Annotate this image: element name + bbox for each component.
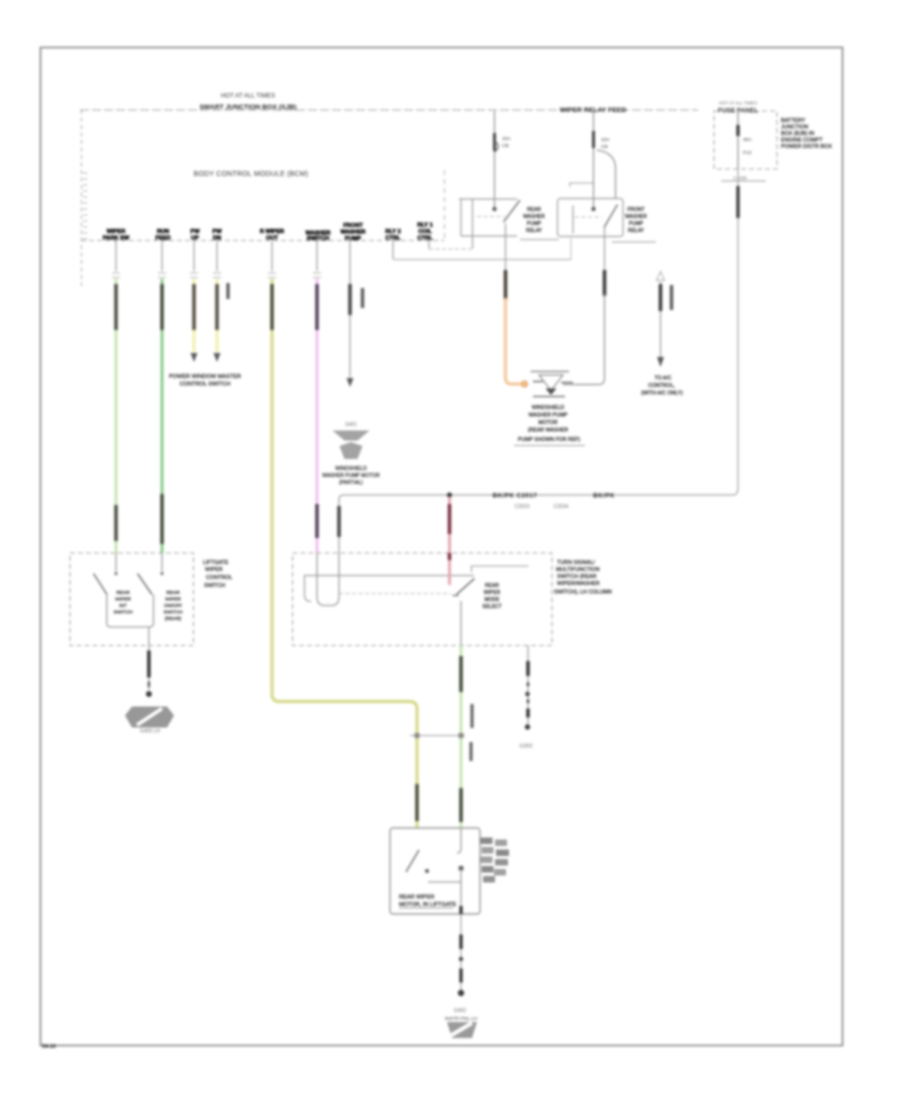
ground G1 left	[125, 707, 174, 735]
node: U3 internal label 1	[114, 590, 133, 616]
wire W3 yellow from pin3	[190, 241, 198, 362]
wire: relay K1 output orange to washer pump	[506, 224, 528, 388]
wire: fuse output down	[737, 169, 739, 491]
fuse box F1 top right	[714, 101, 832, 492]
svg-text:PW: PW	[212, 229, 222, 235]
svg-text:54-10: 54-10	[42, 1044, 56, 1050]
relay K2 front washer relay	[558, 111, 657, 242]
svg-text:WASHER: WASHER	[625, 214, 647, 220]
relay K1 label	[523, 207, 545, 234]
wire W9 gray relay1 coil control	[429, 241, 473, 249]
svg-text:INT: INT	[119, 603, 127, 609]
wire: green lead inside motor box	[457, 828, 461, 853]
relay K2 coil	[572, 206, 574, 234]
svg-text:10A: 10A	[601, 137, 610, 143]
wire W6 pink wash switch	[313, 241, 321, 553]
module U3 master window switch dashed box	[70, 553, 194, 646]
pin 7 label	[341, 223, 366, 242]
relay K1 rear washer relay	[459, 111, 559, 249]
node: U3 internal label 2	[164, 590, 183, 622]
svg-text:WIPER: WIPER	[165, 597, 181, 603]
wire: relay K2 output gray to washer pump	[563, 228, 605, 385]
svg-text:UP: UP	[191, 236, 199, 242]
svg-text:RLY 1: RLY 1	[417, 223, 433, 229]
relay K2 box	[558, 199, 624, 237]
connector C1 below fuse box	[721, 180, 766, 182]
svg-text:R WIPER: R WIPER	[260, 229, 284, 235]
svg-text:S401: S401	[345, 422, 357, 428]
wire: internal off position line	[472, 566, 529, 572]
circuit breaker CB2	[592, 131, 595, 148]
switch SW2 arm	[94, 553, 118, 595]
svg-text:WASHER: WASHER	[523, 214, 545, 220]
svg-text:HOT AT ALL TIMES: HOT AT ALL TIMES	[221, 93, 275, 100]
svg-text:HOT AT ALL TIMES: HOT AT ALL TIMES	[719, 101, 758, 106]
wire: relay K2 feed	[593, 111, 595, 208]
svg-text:SWITCH: SWITCH	[307, 236, 329, 242]
svg-text:C2023: C2023	[515, 504, 530, 510]
wire: U3 internal common bus	[107, 595, 154, 646]
module U1 BODY CONTROL MODULE dashed box	[81, 110, 445, 286]
svg-text:WIPER: WIPER	[115, 597, 131, 603]
switch SW3 arm	[138, 553, 164, 595]
svg-text:REAR: REAR	[116, 590, 130, 596]
wire: U2 feed drop from junction line	[338, 499, 340, 553]
svg-text:SWITCH: SWITCH	[164, 610, 183, 616]
svg-text:C2034: C2034	[554, 504, 569, 510]
wire: fuse feed	[737, 111, 739, 126]
relay K1 switch arm	[504, 200, 521, 222]
svg-text:FRONT: FRONT	[627, 207, 644, 213]
svg-text:WIPER: WIPER	[107, 229, 126, 235]
svg-text:WASHER PUMP MOTOR: WASHER PUMP MOTOR	[322, 473, 380, 479]
svg-text:(WITH A/C ONLY): (WITH A/C ONLY)	[641, 391, 683, 397]
svg-text:F13: F13	[743, 150, 752, 156]
wire: motor ground dashed black	[458, 914, 464, 996]
svg-text:(REAR WASHER: (REAR WASHER	[528, 428, 568, 434]
svg-text:CONTROL: CONTROL	[206, 575, 232, 581]
svg-text:BOX (BJB) IN: BOX (BJB) IN	[781, 131, 814, 137]
svg-text:CB: CB	[502, 143, 509, 149]
connector teeth on BCM left edge	[83, 173, 88, 239]
svg-text:FRONT: FRONT	[343, 223, 363, 229]
svg-text:PUMP: PUMP	[629, 221, 644, 227]
svg-text:CONTROL,: CONTROL,	[648, 383, 675, 389]
pin 5 label	[260, 229, 284, 242]
wire W8 gray relay2 coil control	[393, 238, 571, 260]
svg-text:JUNCTION: JUNCTION	[781, 125, 808, 131]
switch SW1 rear wiper switch arm	[453, 579, 475, 646]
motor M1 washer pump	[514, 372, 585, 446]
svg-text:MOTOR, IN LIFTGATE: MOTOR, IN LIFTGATE	[399, 902, 457, 908]
relay K1 coil	[472, 199, 474, 249]
pin 4 label	[212, 229, 222, 242]
module U2 wiper/washer switch dashed box	[293, 553, 553, 646]
connector C2 inline on both wires	[410, 733, 465, 738]
svg-text:MODE: MODE	[485, 597, 501, 603]
wire: internal feed line with end hook	[305, 576, 475, 602]
svg-text:WASHER: WASHER	[341, 230, 366, 236]
svg-text:BK/PK C2017: BK/PK C2017	[493, 493, 538, 500]
svg-text:(REAR): (REAR)	[165, 616, 182, 622]
wire: relay K1 feed	[494, 111, 496, 208]
wire W7 gray front washer pump output	[347, 241, 363, 387]
svg-text:WIPER/WASHER: WIPER/WASHER	[557, 581, 600, 587]
wire: A/C option stub with arrows	[641, 272, 683, 397]
svg-text:BODY CONTROL MODULE (BCM): BODY CONTROL MODULE (BCM)	[194, 171, 309, 178]
pin 1 label	[103, 229, 130, 242]
svg-text:G400 LH: G400 LH	[140, 729, 160, 735]
pin 3 label	[190, 229, 200, 242]
svg-text:WINDSHIELD: WINDSHIELD	[335, 466, 367, 472]
wire: internal dashed position line	[339, 593, 451, 595]
node: U2 internal label	[482, 583, 501, 610]
svg-text:PARK SW: PARK SW	[103, 236, 130, 242]
wire: black ground from U2	[519, 646, 532, 750]
node: battery junction box label	[781, 118, 832, 150]
svg-text:PW: PW	[190, 229, 200, 235]
wire W1 pale-green from pin1	[112, 241, 120, 553]
svg-text:RLY 2: RLY 2	[385, 229, 401, 235]
pin 9 label	[417, 223, 433, 242]
node: bus label HOT AT ALL TIMES	[199, 93, 296, 112]
svg-text:WINDSHIELD: WINDSHIELD	[532, 405, 565, 411]
relay K1 box	[459, 199, 517, 236]
svg-text:REAR WIPER: REAR WIPER	[399, 895, 434, 901]
svg-text:FEED: FEED	[155, 236, 170, 242]
wire: red washer signal drop	[448, 497, 451, 585]
node: U3 outside label	[203, 560, 232, 589]
svg-text:SWITCH (REAR: SWITCH (REAR	[557, 574, 597, 580]
pin 6 label	[306, 231, 331, 243]
node: power window label under arrows	[169, 374, 241, 388]
wire: green rear wiper output below U2	[461, 646, 472, 829]
relay K2 label	[625, 207, 647, 234]
ground G2 bottom	[445, 1008, 478, 1038]
svg-text:SWITCH: SWITCH	[114, 610, 133, 616]
svg-text:CONTROL SWITCH: CONTROL SWITCH	[180, 382, 231, 388]
svg-text:COIL: COIL	[418, 229, 432, 235]
svg-text:CTRL: CTRL	[417, 236, 433, 242]
svg-text:TO A/C: TO A/C	[655, 376, 672, 382]
node: U2 outside label	[554, 560, 612, 596]
svg-text:MOTOR: MOTOR	[538, 420, 557, 426]
svg-text:WIPER: WIPER	[205, 567, 223, 573]
connector C3 motor pigtail hatch	[481, 838, 510, 883]
svg-text:PUMP SHOWN FOR REF): PUMP SHOWN FOR REF)	[518, 437, 580, 443]
svg-text:SWITCH: SWITCH	[204, 583, 225, 589]
svg-text:BK/PK: BK/PK	[593, 493, 615, 500]
svg-text:MULTIFUNCTION: MULTIFUNCTION	[556, 567, 600, 573]
wire: U3 ground lead	[146, 646, 152, 698]
svg-text:TURN SIGNAL/: TURN SIGNAL/	[557, 560, 595, 566]
svg-text:REAR: REAR	[527, 207, 541, 213]
svg-text:REAR: REAR	[485, 583, 499, 589]
fuse F13	[736, 125, 739, 136]
svg-text:(PARTIAL): (PARTIAL)	[339, 480, 363, 486]
wire W4 yellow from pin4	[213, 241, 228, 362]
wire: K2 switch branch	[597, 150, 616, 199]
svg-text:10A: 10A	[502, 136, 511, 142]
wire: internal U-turn pink to feed	[317, 553, 339, 606]
svg-text:G402: G402	[454, 1008, 466, 1014]
svg-text:SWITCH), LH COLUMN: SWITCH), LH COLUMN	[554, 590, 612, 596]
svg-text:30A: 30A	[743, 137, 752, 143]
wire W2 green from pin2	[158, 241, 166, 553]
svg-text:G302: G302	[519, 744, 532, 750]
motor M2 rear wiper motor box	[390, 828, 480, 914]
svg-text:REAR: REAR	[166, 590, 180, 596]
svg-text:RUN: RUN	[157, 229, 169, 235]
svg-text:WIPER: WIPER	[484, 590, 501, 596]
pin 2 label	[155, 229, 170, 242]
svg-text:SELECT: SELECT	[482, 604, 501, 610]
wire W5 chartreuse rear wiper feed	[268, 241, 417, 828]
svg-text:LIFTGATE: LIFTGATE	[203, 560, 229, 566]
svg-text:WASHER PUMP: WASHER PUMP	[528, 413, 568, 419]
circuit breaker CB1	[493, 133, 496, 151]
svg-text:POWER WINDOW MASTER: POWER WINDOW MASTER	[169, 374, 241, 380]
splice S1 below W7	[322, 422, 380, 486]
svg-text:RELAY: RELAY	[628, 228, 645, 234]
svg-text:DN: DN	[213, 236, 221, 242]
svg-text:POWER DISTR BOX: POWER DISTR BOX	[781, 144, 832, 150]
wire: hot-at-all-times bus (dashed)	[80, 109, 698, 111]
svg-text:RELAY: RELAY	[526, 228, 543, 234]
svg-text:OUT: OUT	[266, 236, 279, 242]
svg-text:BATTERY: BATTERY	[781, 118, 806, 124]
svg-text:ENGINE COMPT: ENGINE COMPT	[781, 138, 823, 144]
svg-text:C1035: C1035	[733, 176, 747, 181]
svg-text:PUMP: PUMP	[527, 221, 542, 227]
svg-text:ON/OFF: ON/OFF	[164, 603, 182, 609]
relay K2 switch arm	[604, 205, 618, 228]
wire: washer feed junction line	[339, 490, 738, 510]
node: K2 terminal tick	[569, 183, 593, 187]
svg-text:PUMP: PUMP	[345, 236, 362, 242]
svg-text:CB: CB	[601, 144, 608, 150]
svg-text:CTRL: CTRL	[385, 236, 401, 242]
switch SW4 park switch arm	[406, 850, 419, 872]
svg-text:SMART JUNCTION BOX (SJB): SMART JUNCTION BOX (SJB)	[199, 104, 296, 111]
pin 8 label	[385, 229, 401, 242]
svg-text:INSTR PNL LH: INSTR PNL LH	[445, 1016, 478, 1022]
